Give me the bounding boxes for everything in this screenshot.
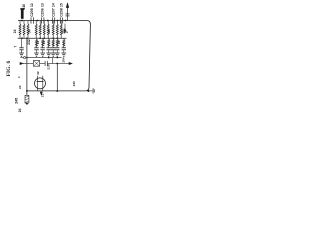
node: junction on bottom wire at right edge xyxy=(87,90,89,92)
capacitor C218 (lower ladder row) xyxy=(51,47,55,49)
svg-text:21: 21 xyxy=(41,94,45,98)
resistor R211 (top ladder row) xyxy=(23,21,25,25)
wire: left vertical run xyxy=(26,38,28,95)
ground under C210 xyxy=(19,52,24,54)
svg-text:24: 24 xyxy=(42,40,46,44)
svg-text:C206: C206 xyxy=(41,8,45,17)
transistor Q201 (circle) xyxy=(35,78,46,89)
node: junction on bottom wire xyxy=(56,90,58,92)
resistor R217 (top ladder row) xyxy=(52,21,54,25)
node: junction of left vertical with bottom wire xyxy=(26,90,28,92)
wire: top supply bus and right-side return loop xyxy=(18,21,90,91)
resistor R215 (top ladder row) xyxy=(43,21,45,25)
resistor R218 (top ladder row) xyxy=(56,21,58,25)
ground (col 63.8) xyxy=(62,52,67,54)
node: signal line junction xyxy=(56,63,58,65)
wire: signal line to junction xyxy=(47,63,57,65)
node: middle bus junctions xyxy=(21,37,23,39)
transistor Q201 top leads xyxy=(37,76,39,82)
svg-text:24: 24 xyxy=(18,108,22,112)
transistor emitter arrowhead below wire xyxy=(40,92,42,95)
terminal circle on rail xyxy=(24,57,26,59)
capacitor C208 (series in bus) xyxy=(59,17,61,23)
wire with down arrow at ladder right xyxy=(64,24,66,31)
capacitor C220 (lower ladder row) xyxy=(62,47,66,49)
resistor R224 (lower ladder row) xyxy=(56,38,58,39)
wire: middle bus xyxy=(18,37,67,39)
resistor R216 (top ladder row) xyxy=(47,21,49,25)
terminal dot at bottom of left vertical xyxy=(26,103,28,105)
wire: lower horizontal rail xyxy=(27,57,62,59)
svg-text:204: 204 xyxy=(61,57,65,62)
svg-text:15: 15 xyxy=(59,3,63,7)
capacitor C210 to ground (col x=21.5) xyxy=(21,38,23,47)
capacitor C216 (lower ladder row) xyxy=(41,47,45,49)
resistor R220 (lower ladder row) xyxy=(36,38,38,39)
svg-text:230: 230 xyxy=(72,81,76,86)
ground: rotated ground symbol at right end of bottom wire xyxy=(88,90,92,92)
output arrowhead xyxy=(69,62,73,64)
svg-text:C208: C208 xyxy=(59,8,63,17)
svg-text:FIG. 6: FIG. 6 xyxy=(6,61,12,77)
svg-text:7: 7 xyxy=(13,46,17,48)
wire: stub from rail down to signal line xyxy=(52,58,54,64)
svg-text:24: 24 xyxy=(13,29,17,33)
capacitor C205 (series in bus) xyxy=(30,17,32,23)
ground (col 48.7) xyxy=(46,52,51,54)
capacitor C211 (series in signal line) xyxy=(44,61,46,66)
capacitor C217 (lower ladder row) xyxy=(47,47,51,49)
ground (col 36.5) xyxy=(34,52,39,54)
resistor R219 (top ladder row) xyxy=(60,21,62,25)
crystal filter FL201 (box with X) xyxy=(33,61,39,67)
resistor R223 (lower ladder row) xyxy=(52,38,54,39)
resistor R213 (top ladder row) xyxy=(35,21,37,25)
capacitor C207 (series in bus) xyxy=(51,17,53,23)
capacitor C206 (series in bus) xyxy=(41,17,43,23)
wire: signal line to output arrow xyxy=(57,63,69,65)
svg-text:22: 22 xyxy=(36,71,40,75)
transistor Q201 internal bar xyxy=(37,81,44,83)
svg-text:C205: C205 xyxy=(30,8,34,17)
wire: input signal line xyxy=(23,63,33,65)
wire: antenna lead going up xyxy=(67,7,69,20)
resistor R212 (top ladder row) xyxy=(27,21,29,25)
ground (col 42.7) xyxy=(40,52,45,54)
svg-text:245: 245 xyxy=(14,98,18,104)
svg-text:13: 13 xyxy=(41,3,45,7)
wire: signal line after filter xyxy=(40,63,46,65)
capacitor C219 (lower ladder row) xyxy=(55,47,59,49)
node: bus junction under L201 xyxy=(21,20,23,22)
svg-text:12: 12 xyxy=(30,3,34,7)
svg-text:23: 23 xyxy=(36,40,40,44)
wire: vertical from signal junction down to bottom wire xyxy=(56,64,58,91)
resistor R221 (lower ladder row) xyxy=(42,38,44,39)
ground (col 57.3) xyxy=(55,52,60,54)
input arrowhead xyxy=(20,62,24,64)
svg-text:219: 219 xyxy=(46,64,50,69)
svg-text:232: 232 xyxy=(27,39,31,45)
ground (col 53.2) xyxy=(51,52,56,54)
svg-text:23: 23 xyxy=(18,85,22,89)
svg-text:C207: C207 xyxy=(51,8,55,17)
wire: stub left of rail terminal xyxy=(20,57,23,59)
resistor R214 (top ladder row) xyxy=(39,21,41,25)
node: rail junctions xyxy=(26,57,28,59)
capacitor C215 (lower ladder row) xyxy=(34,47,38,49)
node: bus junctions xyxy=(37,20,39,22)
resistor R225 (lower ladder row) xyxy=(63,38,65,39)
capacitor C209 (series in antenna lead) xyxy=(65,15,69,17)
svg-text:25: 25 xyxy=(47,29,51,33)
antenna arrowhead (to antenna) xyxy=(66,3,69,8)
resistor R210 (top ladder row) xyxy=(19,21,21,25)
transistor Q201 bottom leads to bottom wire xyxy=(37,82,39,91)
svg-text:24: 24 xyxy=(28,29,32,33)
svg-text:14: 14 xyxy=(51,3,55,7)
svg-text:210: 210 xyxy=(22,4,26,10)
svg-text:26: 26 xyxy=(57,40,61,44)
resistor R222 (lower ladder row) xyxy=(48,38,50,39)
inductor L201 (solid bar) top-left xyxy=(21,9,24,19)
resistor R230 (hatched box in left vertical, bottom) xyxy=(25,95,29,103)
